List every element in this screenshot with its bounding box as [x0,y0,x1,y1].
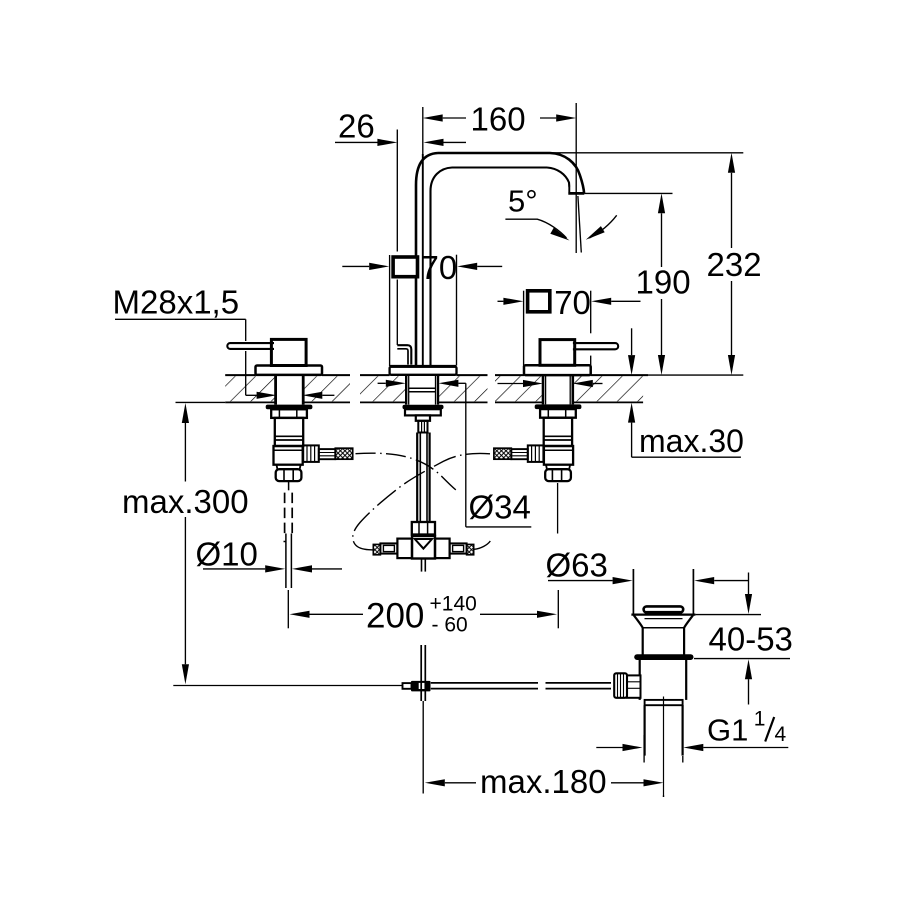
svg-text:4: 4 [775,723,787,746]
flex hose left-to-tee (crossing curve A) [353,453,490,549]
right valve bottom nut [545,465,571,481]
dimension O10 [196,536,343,573]
spout U1 (high L-spout outline) [416,153,584,366]
dimension G1 1/4 [596,708,788,763]
left handle seal ring (black) [266,405,313,410]
svg-text:G1: G1 [707,713,748,748]
left handle lever [227,343,274,349]
horizontal pop-up rod [431,683,611,689]
spout seal ring (black) [403,405,444,410]
drain knurled knob [614,673,627,698]
dimension 26 [335,108,466,346]
drain body [640,660,687,700]
mounting surface bottom line [225,401,643,403]
right valve hose fitting [511,449,528,459]
right valve braided hose stub [494,448,511,459]
dimension 232 [547,153,762,375]
max.300 bottom extension line [173,685,402,687]
svg-text:max.300: max.300 [122,483,249,520]
left valve hose fitting [319,449,336,459]
rod cross coupling (black) [411,681,431,692]
dimension 200 +140/-60 [288,590,558,637]
surface bottom extension line (left, for max.300) [176,401,226,403]
tee right arm fitting [450,543,474,554]
svg-text:max.30: max.30 [639,423,744,459]
svg-text:190: 190 [636,264,691,301]
svg-text:200: 200 [366,597,424,636]
right valve body lower [544,446,573,465]
dimension 5 degrees [505,184,672,254]
pop-up rod dashed section [285,493,293,534]
right valve body upper [544,418,572,446]
tee left arm fitting [373,543,397,554]
svg-text:M28x1,5: M28x1,5 [113,284,240,321]
label M28x1,5 [113,284,335,399]
right handle lever [573,343,618,349]
left valve bottom nut [276,465,302,481]
spout threaded shank below counter [406,376,438,405]
drain flange upper cylinder [633,569,693,614]
left handle shank [276,376,304,405]
right handle base [524,365,591,375]
counter hatching [225,376,643,401]
pop-up rod solid section (d10) [284,534,292,589]
tee connector hex nut [412,522,435,535]
svg-text:Ø10: Ø10 [196,536,258,573]
svg-text:70: 70 [554,284,591,321]
svg-text:5°: 5° [508,184,538,219]
left valve hex nut [271,409,307,418]
right handle seal ring (black) [535,404,582,409]
right handle centerline [557,483,559,534]
spout locknut stack [405,409,441,432]
vertical pop-up rod [421,645,425,701]
svg-text:232: 232 [707,246,762,283]
tee connector body [397,536,449,559]
svg-text:max.180: max.180 [480,763,607,800]
dimension 160 [423,101,577,191]
mounting surface top line [225,374,648,376]
right handle body [540,340,575,366]
left valve side port (knurled) [303,445,319,462]
drain side port [627,675,641,697]
label O34 with leader from spout shank [378,380,532,527]
left valve body upper [275,418,303,446]
spout supply tube [417,433,429,522]
drain neck taper [634,615,693,655]
dimension max.30 [628,328,744,459]
left handle body [271,339,306,365]
svg-text:160: 160 [471,101,526,138]
left valve pin [288,481,290,490]
dimension square-70 spout [342,249,502,366]
svg-text:1: 1 [754,708,766,731]
tee bottom pin [422,559,426,572]
svg-text:Ø63: Ø63 [546,547,608,584]
dimension max.180 [423,701,663,800]
rod end fitting [403,683,412,689]
right handle shank [543,376,573,405]
spout internal hook pipe [397,345,411,364]
svg-text:- 60: - 60 [432,614,468,637]
drain centerline [663,697,665,798]
drain flange top line [631,613,695,615]
right valve hex nut [540,409,576,418]
drain O-ring (black) [634,654,693,660]
svg-text:+140: +140 [430,593,477,616]
left handle base [256,366,323,375]
dimension O63 [546,547,749,585]
flex hose right-to-tee (crossing curve B) [356,453,459,492]
dimension 190 [636,193,691,375]
left valve braided hose stub [335,448,352,459]
drain coupling ring [645,700,683,705]
spout base plate [390,366,457,374]
drain lift knob cap [644,606,684,614]
drain tailpiece [645,705,683,755]
right valve side port (knurled) [528,445,544,462]
svg-text:Ø34: Ø34 [469,489,531,526]
dimension square-70 right handle [498,284,641,367]
svg-text:26: 26 [338,108,375,145]
svg-text:70: 70 [421,249,458,286]
svg-text:40-53: 40-53 [709,621,793,658]
tee right arm hose curl [474,541,490,549]
right handle thread arrows [498,380,603,387]
dimension 40-53 [694,573,793,705]
dimension max.300 [122,403,249,684]
left valve body lower [274,446,303,465]
